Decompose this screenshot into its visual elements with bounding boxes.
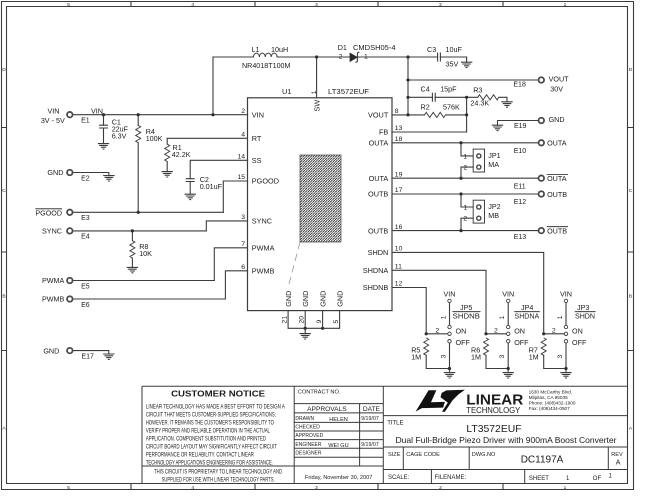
- svg-text:VOUT: VOUT: [549, 74, 570, 83]
- svg-text:VERIFY PROPER AND RELIABLE OPE: VERIFY PROPER AND RELIABLE OPERATION IN …: [146, 427, 270, 434]
- svg-text:9/19/07: 9/19/07: [361, 442, 379, 448]
- svg-text:E5: E5: [81, 283, 90, 290]
- svg-text:VIN: VIN: [560, 289, 572, 298]
- wire R4 leads: [137, 115, 139, 213]
- svg-text:JP1: JP1: [488, 151, 500, 160]
- svg-text:15: 15: [237, 174, 245, 181]
- wire C3 ground stem: [466, 57, 468, 62]
- svg-text:C4: C4: [421, 84, 430, 93]
- inductor L1: [254, 53, 278, 57]
- svg-text:100K: 100K: [146, 134, 163, 143]
- node diode out: [406, 55, 409, 58]
- capacitor C3: [438, 53, 441, 62]
- U1 exposed pad dashed link: [288, 242, 300, 288]
- svg-text:VIN: VIN: [252, 110, 264, 119]
- svg-text:E6: E6: [81, 302, 90, 309]
- svg-text:APPLICATION. COMPONENT SUBSTI: APPLICATION. COMPONENT SUBSTITUTION AND …: [146, 436, 266, 443]
- svg-text:1M: 1M: [411, 353, 421, 362]
- svg-text:OFF: OFF: [514, 338, 529, 347]
- wire JP2 pin2 link: [461, 218, 473, 230]
- svg-text:4: 4: [191, 2, 194, 8]
- node JP4 gnd: [507, 367, 510, 370]
- svg-text:19: 19: [395, 171, 403, 178]
- ground R8: [127, 267, 138, 272]
- svg-text:OUTA: OUTA: [547, 174, 567, 183]
- svg-text:E19: E19: [514, 123, 527, 130]
- node OUTB#-JP2: [459, 229, 462, 232]
- wire SW/L1 top rail: [213, 56, 467, 58]
- svg-text:PGOOD: PGOOD: [35, 209, 62, 218]
- wire JP1 pin1 link: [461, 143, 473, 156]
- wire jumper pin3 stem: [449, 343, 451, 369]
- wire jumper pin3 stem: [565, 343, 567, 369]
- wire OUTB row E12: [392, 193, 538, 195]
- terminal E18: [539, 77, 545, 83]
- node VIN-R4: [137, 113, 140, 116]
- svg-text:Milpitas, CA 95035: Milpitas, CA 95035: [529, 395, 568, 400]
- svg-text:SHDNB: SHDNB: [453, 311, 480, 320]
- svg-text:4: 4: [241, 132, 245, 139]
- svg-text:A: A: [616, 460, 621, 467]
- svg-text:2: 2: [439, 2, 442, 8]
- svg-text:D1: D1: [338, 43, 347, 52]
- svg-text:VOUT: VOUT: [368, 111, 389, 120]
- svg-text:10: 10: [395, 246, 403, 253]
- wire SW pin: [316, 57, 318, 98]
- svg-text:PWMA: PWMA: [252, 244, 275, 253]
- svg-text:2: 2: [439, 485, 442, 491]
- svg-text:SIZE: SIZE: [388, 452, 401, 458]
- svg-text:1: 1: [364, 53, 368, 60]
- svg-text:15pF: 15pF: [440, 84, 457, 93]
- svg-text:42.2K: 42.2K: [172, 150, 191, 159]
- wire PWMB row: [225, 271, 247, 299]
- svg-text:HOWEVER, IT REMAINS THE CUSTOM: HOWEVER, IT REMAINS THE CUSTOMER'S RESPO…: [146, 419, 274, 426]
- svg-text:1: 1: [557, 315, 564, 319]
- svg-text:9: 9: [316, 320, 323, 324]
- svg-text:2: 2: [552, 328, 556, 335]
- overline OUTA E11: [547, 173, 568, 175]
- jumper JP2: [473, 200, 484, 223]
- svg-text:1: 1: [564, 485, 567, 491]
- border zone ticks top: [131, 2, 503, 7]
- wire SHDNA row: [392, 270, 486, 334]
- wire JP2 pin1 link: [461, 194, 473, 207]
- resistor R5: [424, 338, 429, 355]
- resistor R2: [425, 112, 446, 117]
- node JP5 gnd: [448, 367, 451, 370]
- svg-text:CUSTOMER NOTICE: CUSTOMER NOTICE: [171, 389, 265, 399]
- terminal E2: [67, 170, 73, 176]
- svg-text:2: 2: [463, 165, 467, 172]
- svg-text:2: 2: [339, 53, 343, 60]
- svg-text:DWG.NO: DWG.NO: [472, 452, 496, 458]
- svg-text:1: 1: [463, 153, 467, 160]
- svg-text:E12: E12: [514, 199, 527, 206]
- svg-text:SS: SS: [252, 156, 262, 165]
- svg-text:NR4018T100M: NR4018T100M: [242, 61, 291, 70]
- svg-text:LT3572EUF: LT3572EUF: [466, 424, 521, 435]
- svg-text:B: B: [2, 294, 5, 300]
- node R4-E3: [137, 211, 140, 214]
- wire E4 row: [73, 230, 207, 232]
- svg-text:ON: ON: [572, 327, 583, 336]
- svg-text:SYNC: SYNC: [42, 227, 62, 236]
- svg-text:LINEAR TECHNOLOGY HAS MADE A B: LINEAR TECHNOLOGY HAS MADE A BEST EFFORT…: [146, 403, 286, 410]
- node VIN-C1: [102, 113, 105, 116]
- terminal E13: [539, 228, 545, 234]
- svg-text:Friday, November 30, 2007: Friday, November 30, 2007: [305, 475, 372, 481]
- terminal E1: [67, 112, 73, 118]
- wire OUTA# row E11: [392, 177, 538, 179]
- node SW: [315, 55, 318, 58]
- wire GND pins bus: [288, 311, 340, 334]
- svg-text:PGOOD: PGOOD: [252, 177, 279, 186]
- svg-text:7: 7: [241, 241, 245, 248]
- wire C4/R3 row: [408, 97, 507, 102]
- wire SYNC row: [206, 221, 247, 231]
- node FB-C4: [465, 96, 468, 99]
- svg-text:16: 16: [395, 224, 403, 231]
- svg-text:ENGINEER: ENGINEER: [295, 442, 322, 448]
- svg-text:SW: SW: [313, 100, 322, 112]
- jumper JP1: [473, 149, 484, 172]
- svg-text:B: B: [629, 294, 632, 300]
- svg-text:CHECKED: CHECKED: [295, 424, 320, 430]
- svg-text:10uF: 10uF: [446, 45, 463, 54]
- wire PWMA row: [214, 248, 247, 281]
- svg-text:MA: MA: [488, 160, 499, 169]
- node VOUT pin: [406, 113, 409, 116]
- svg-text:D: D: [629, 67, 633, 73]
- svg-text:CIRCUIT THAT MEETS CUSTOMER-SU: CIRCUIT THAT MEETS CUSTOMER-SUPPLIED SPE…: [146, 411, 276, 418]
- svg-text:Dual Full-Bridge Piezo Driver: Dual Full-Bridge Piezo Driver with 900mA…: [396, 435, 617, 445]
- resistor R3: [478, 95, 499, 100]
- node OUTB-JP2: [459, 192, 462, 195]
- svg-text:JP2: JP2: [488, 202, 500, 211]
- wire jumper pin2 row: [544, 333, 565, 335]
- terminal E17: [67, 348, 73, 354]
- ground JP4: [503, 373, 514, 378]
- wire E17 ground: [73, 351, 109, 354]
- svg-text:GND: GND: [335, 291, 344, 307]
- wire R1 ground lead: [166, 162, 168, 172]
- op-amp U1 LT3572EUF chip body: [248, 98, 393, 311]
- ground R1: [162, 172, 173, 177]
- svg-text:2: 2: [463, 216, 467, 223]
- svg-text:E13: E13: [514, 234, 527, 241]
- wire RT row: [167, 138, 247, 144]
- svg-text:WEI GU: WEI GU: [328, 443, 349, 449]
- svg-text:8: 8: [395, 108, 399, 115]
- wire E3 row: [73, 211, 224, 213]
- svg-text:3: 3: [557, 355, 564, 359]
- ground E19: [492, 125, 503, 130]
- svg-text:0.01uF: 0.01uF: [200, 182, 223, 191]
- svg-text:14: 14: [237, 154, 245, 161]
- svg-text:E17: E17: [82, 353, 95, 360]
- wire R8 leads: [131, 231, 133, 268]
- svg-text:SHDNA: SHDNA: [515, 311, 540, 320]
- ground JP5: [444, 373, 455, 378]
- ground C2: [185, 194, 196, 199]
- node SHDNB-R5: [425, 332, 428, 335]
- resistor R1: [165, 144, 170, 161]
- svg-text:GND: GND: [301, 291, 310, 307]
- svg-text:OUTB: OUTB: [547, 227, 567, 236]
- svg-text:OUTB: OUTB: [368, 190, 388, 199]
- svg-text:OUTA: OUTA: [369, 174, 389, 183]
- diode D1: [350, 53, 357, 61]
- svg-text:THIS CIRCUIT IS PROPRIETARY TO: THIS CIRCUIT IS PROPRIETARY TO LINEAR TE…: [154, 468, 282, 475]
- capacitor C2: [186, 179, 195, 182]
- wire VIN rail: [73, 114, 248, 116]
- svg-text:APPROVALS: APPROVALS: [307, 406, 347, 413]
- svg-text:GND: GND: [318, 291, 327, 307]
- ground R3: [501, 102, 512, 107]
- resistor R7: [541, 338, 546, 355]
- svg-text:TECHNOLOGY: TECHNOLOGY: [466, 406, 521, 415]
- svg-text:E4: E4: [81, 234, 90, 241]
- title block frame: [142, 386, 628, 483]
- wire jumper pin1 stem: [449, 303, 451, 326]
- node VIN-L1: [211, 113, 214, 116]
- wire VOUT node vertical: [407, 57, 409, 115]
- svg-text:GND: GND: [43, 346, 59, 355]
- svg-text:10uH: 10uH: [271, 45, 288, 54]
- svg-text:GND: GND: [47, 168, 63, 177]
- svg-text:1630 McCarthy Blvd.: 1630 McCarthy Blvd.: [529, 389, 573, 394]
- node GND bus 20: [304, 327, 307, 330]
- svg-text:E10: E10: [514, 148, 527, 155]
- terminal E6: [67, 296, 73, 302]
- capacitor C1: [99, 125, 108, 128]
- svg-text:C: C: [629, 188, 633, 194]
- wire E19 ground row: [498, 121, 539, 126]
- node FB-R2: [465, 113, 468, 116]
- svg-text:FILENAME:: FILENAME:: [435, 475, 467, 481]
- svg-text:E2: E2: [81, 175, 90, 182]
- svg-text:3: 3: [241, 214, 245, 221]
- node JP3 gnd: [564, 367, 567, 370]
- svg-text:6: 6: [241, 264, 245, 271]
- svg-text:6.3V: 6.3V: [112, 132, 127, 141]
- svg-text:PERFORMANCE OR RELIABILITY. C: PERFORMANCE OR RELIABILITY. CONTACT LINE…: [146, 452, 254, 459]
- wire L1 input branch: [212, 57, 214, 115]
- node SHDN-R7: [542, 332, 545, 335]
- wire OUTB# row E13: [392, 230, 538, 232]
- svg-text:SHDN: SHDN: [368, 248, 389, 257]
- svg-text:RT: RT: [252, 134, 262, 143]
- overline PGOOD: [35, 208, 62, 210]
- overline SHDNB JP5: [452, 311, 480, 313]
- U1 exposed pad (hatched): [300, 155, 341, 242]
- svg-text:C3: C3: [427, 45, 436, 54]
- svg-text:13: 13: [395, 125, 403, 132]
- svg-text:L1: L1: [252, 45, 260, 54]
- resistor R4: [136, 125, 141, 142]
- svg-text:CAGE CODE: CAGE CODE: [406, 452, 440, 458]
- svg-text:DATE: DATE: [363, 406, 381, 413]
- wire E5 row: [73, 280, 215, 282]
- wire jumper ground row: [486, 355, 508, 372]
- svg-text:35V: 35V: [446, 59, 459, 68]
- svg-text:2: 2: [241, 108, 245, 115]
- ground E17: [103, 354, 114, 359]
- svg-text:SUPPLIED FOR USE WITH LINEAR T: SUPPLIED FOR USE WITH LINEAR TECHNOLOGY …: [162, 476, 275, 483]
- svg-text:576K: 576K: [443, 103, 460, 112]
- svg-text:VIN: VIN: [444, 289, 456, 298]
- wire jumper pin3 stem: [507, 343, 509, 369]
- terminal E12: [539, 191, 545, 197]
- svg-text:12: 12: [395, 281, 403, 288]
- svg-text:1: 1: [463, 204, 467, 211]
- svg-text:VIN: VIN: [48, 107, 60, 116]
- svg-text:DRAWN: DRAWN: [295, 416, 314, 422]
- svg-text:E18: E18: [513, 81, 526, 88]
- node GND bus 9: [321, 327, 324, 330]
- svg-text:LT3572EUF: LT3572EUF: [328, 87, 369, 96]
- jumper JP5 pins: [448, 299, 451, 343]
- svg-text:3: 3: [499, 355, 506, 359]
- svg-text:CONTRACT NO.: CONTRACT NO.: [298, 390, 341, 396]
- svg-text:VIN: VIN: [91, 107, 103, 116]
- svg-text:SHEET: SHEET: [529, 476, 549, 482]
- wire FB row: [392, 97, 467, 132]
- svg-text:17: 17: [395, 187, 403, 194]
- svg-text:CIRCUIT BOARD LAYOUT MAY SIGNI: CIRCUIT BOARD LAYOUT MAY SIGNIFICANTLY A…: [146, 444, 277, 451]
- svg-text:3: 3: [315, 2, 318, 8]
- svg-text:E1: E1: [81, 118, 90, 125]
- svg-text:24.3K: 24.3K: [470, 99, 489, 108]
- terminal E4: [67, 228, 73, 234]
- terminal E10: [539, 140, 545, 146]
- svg-text:C: C: [2, 188, 6, 194]
- border zone ticks bottom: [131, 484, 503, 490]
- wire E6 row: [73, 298, 226, 300]
- resistor R6: [484, 338, 489, 355]
- node R8-E4: [131, 229, 134, 232]
- svg-text:SHDNB: SHDNB: [363, 283, 389, 292]
- wire SHDNB row: [392, 288, 426, 334]
- wire PGOOD row: [223, 181, 247, 212]
- svg-text:SHDNA: SHDNA: [363, 266, 389, 275]
- svg-text:2: 2: [494, 328, 498, 335]
- wire SHDN row: [392, 252, 544, 333]
- svg-text:TITLE: TITLE: [387, 421, 403, 427]
- capacitor C4: [432, 93, 435, 102]
- border zone ticks left: [2, 128, 7, 351]
- svg-text:3V - 5V: 3V - 5V: [41, 116, 65, 125]
- svg-text:TECHNOLOGY APPLICATIONS ENGINE: TECHNOLOGY APPLICATIONS ENGINEERING FOR …: [146, 460, 273, 467]
- svg-text:20: 20: [299, 316, 306, 324]
- Linear Technology logo mark: [416, 390, 465, 412]
- wire SS row: [190, 160, 247, 178]
- svg-text:30V: 30V: [550, 85, 563, 94]
- svg-text:OUTB: OUTB: [368, 226, 388, 235]
- wire jumper ground row: [544, 355, 566, 372]
- svg-text:PWMB: PWMB: [252, 267, 275, 276]
- svg-text:DESIGNER: DESIGNER: [295, 451, 322, 457]
- svg-text:2: 2: [435, 328, 439, 335]
- overline SHDNA JP4: [514, 311, 540, 313]
- svg-text:ON: ON: [456, 327, 467, 336]
- terminal E3: [67, 210, 73, 216]
- wire C1 stems: [103, 115, 105, 144]
- svg-text:OF: OF: [593, 476, 602, 482]
- node C4 row: [406, 96, 409, 99]
- svg-text:5: 5: [67, 2, 70, 8]
- svg-text:VIN: VIN: [502, 289, 514, 298]
- svg-text:E11: E11: [514, 184, 526, 191]
- wire OUTA row E10: [392, 142, 538, 144]
- svg-text:9/19/07: 9/19/07: [361, 416, 379, 422]
- ground E2: [103, 176, 114, 181]
- terminal E19: [539, 118, 545, 124]
- wire C2 ground stem: [189, 182, 191, 195]
- wire JP1 pin2 link: [461, 167, 473, 178]
- wire jumper pin1 stem: [507, 303, 509, 326]
- resistor R8: [130, 241, 135, 258]
- svg-text:MB: MB: [488, 211, 499, 220]
- ground C3: [461, 62, 472, 67]
- svg-text:5: 5: [67, 485, 70, 491]
- wire E2 ground: [73, 173, 109, 176]
- svg-text:3: 3: [440, 355, 447, 359]
- node VOUT rail: [406, 78, 409, 81]
- svg-text:18: 18: [395, 136, 403, 143]
- wire R2 row VOUT pin: [392, 114, 467, 116]
- svg-text:ON: ON: [514, 327, 525, 336]
- jumper JP4 pins: [507, 299, 510, 343]
- svg-text:5: 5: [333, 320, 340, 324]
- wire VOUT rail to E18: [408, 79, 538, 81]
- overline OUTB E13: [547, 226, 568, 228]
- jumper JP3 pins: [564, 299, 567, 343]
- svg-text:R3: R3: [473, 86, 482, 95]
- svg-text:OFF: OFF: [456, 338, 471, 347]
- svg-text:REV: REV: [611, 452, 623, 458]
- ground U1 GND pins: [300, 334, 311, 339]
- svg-text:R2: R2: [421, 103, 430, 112]
- svg-text:U1: U1: [282, 87, 291, 96]
- svg-text:D: D: [2, 67, 6, 73]
- svg-text:DC1197A: DC1197A: [521, 454, 564, 465]
- node OUTA-JP1: [459, 141, 462, 144]
- svg-text:4: 4: [191, 485, 194, 491]
- svg-text:21: 21: [281, 316, 288, 324]
- wire jumper pin1 stem: [565, 303, 567, 326]
- svg-text:PWMB: PWMB: [42, 295, 65, 304]
- node OUTA#-JP1: [459, 177, 462, 180]
- wire jumper ground row: [426, 355, 449, 372]
- ground C1: [98, 144, 109, 149]
- overline SHDN JP3: [575, 311, 596, 313]
- svg-text:OFF: OFF: [572, 338, 587, 347]
- svg-text:OUTA: OUTA: [547, 139, 567, 148]
- svg-text:11: 11: [395, 264, 402, 271]
- svg-text:1: 1: [440, 315, 447, 319]
- svg-text:Phone: (408)432-1900: Phone: (408)432-1900: [529, 400, 576, 405]
- svg-text:SYNC: SYNC: [252, 217, 272, 226]
- wire jumper pin2 row: [426, 333, 448, 335]
- svg-text:1: 1: [564, 2, 567, 8]
- svg-text:10K: 10K: [139, 249, 152, 258]
- svg-text:1M: 1M: [471, 353, 481, 362]
- svg-text:3: 3: [315, 485, 318, 491]
- svg-text:GND: GND: [549, 115, 565, 124]
- svg-text:APPROVED: APPROVED: [295, 433, 323, 439]
